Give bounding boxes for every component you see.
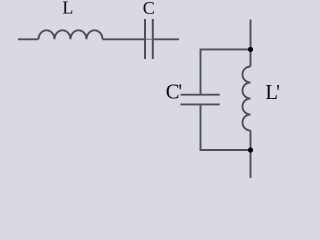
inductor L: [39, 30, 103, 39]
wire: right lead of series branch: [154, 38, 179, 40]
wire: top connector to capacitor branch: [201, 49, 251, 94]
wire: top dot to coil: [250, 50, 252, 67]
inductor L': [243, 67, 251, 131]
svg-text:L: L: [62, 0, 73, 18]
wire: capacitor to bottom connector: [201, 105, 251, 150]
svg-text:C': C': [166, 82, 182, 104]
wire: left lead of series branch: [18, 38, 39, 40]
wire: coil to capacitor C: [103, 38, 145, 40]
wire: faint segment between C plates: [146, 38, 152, 40]
wire: top lead of parallel circuit: [250, 20, 252, 48]
svg-text:L': L': [265, 82, 280, 104]
capacitor C: [145, 19, 153, 59]
svg-text:C: C: [143, 0, 155, 18]
node: bottom junction dot: [248, 147, 253, 152]
node: top junction dot: [248, 47, 253, 52]
wire: bottom lead of parallel circuit: [250, 150, 252, 178]
wire: coil to bottom dot: [250, 131, 252, 151]
capacitor C': [181, 95, 220, 105]
